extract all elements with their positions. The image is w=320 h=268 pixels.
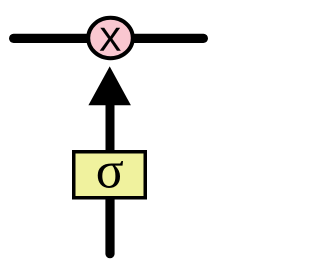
wire: input line below sigma box: [105, 198, 114, 254]
svg-text:X: X: [99, 22, 121, 58]
arrowhead into multiply node: [88, 66, 130, 105]
multiply node circle: [88, 18, 133, 58]
wire: arrow shaft from sigma box up toward multiply node: [106, 104, 115, 153]
wire: horizontal cell-state line: [14, 34, 204, 43]
svg-text:σ: σ: [96, 143, 124, 200]
sigma gate box: [74, 152, 146, 198]
